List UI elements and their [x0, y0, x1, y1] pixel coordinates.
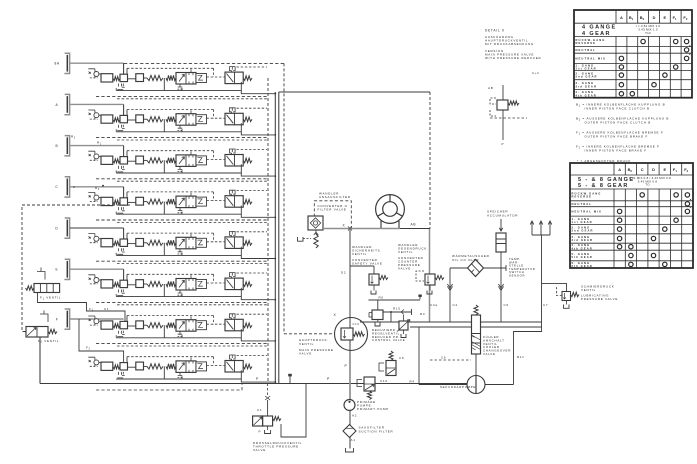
pressure modulating valve row A — [88, 110, 163, 131]
shift valve row A — [166, 110, 207, 130]
pressure modulating valve row F2 — [88, 357, 163, 378]
converter legs — [381, 221, 399, 229]
svg-text:ANSAUGFILTER: ANSAUGFILTER — [319, 195, 351, 199]
shift valve row B — [166, 152, 207, 172]
svg-text:NEUTRAL: NEUTRAL — [576, 48, 597, 52]
svg-text:VALVE: VALVE — [253, 448, 266, 452]
junction dot row F drain/bus — [274, 340, 276, 342]
svg-text:R10: R10 — [393, 307, 401, 311]
svg-text:1st GEAR: 1st GEAR — [576, 67, 597, 71]
svg-text:3rd GEAR: 3rd GEAR — [572, 238, 594, 242]
svg-text:VENTIL: VENTIL — [398, 250, 413, 254]
svg-text:4th GEAR: 4th GEAR — [572, 246, 593, 250]
secondary pump — [467, 376, 485, 394]
drain wires row E — [116, 284, 275, 300]
junction dot row 8A drain/bus — [274, 93, 276, 95]
pilot wire modulator to pilot rail row E — [126, 274, 128, 280]
wire: row 8A supply to converter (node AB) — [279, 91, 430, 93]
svg-text:VENTIL: VENTIL — [299, 342, 314, 346]
shift valve row C — [166, 193, 207, 213]
svg-text:3rd GEAR: 3rd GEAR — [576, 84, 598, 88]
svg-text:D2: D2 — [341, 271, 346, 275]
solenoid pilot valve row 8A — [225, 67, 252, 84]
pilot drain dashed drop row A — [115, 129, 117, 132]
plugged port at R0 line end — [418, 295, 421, 297]
svg-text:D: D — [653, 15, 656, 20]
solenoid pilot valve row D — [225, 231, 252, 248]
svg-text:E: E — [663, 167, 666, 172]
clutch D — [64, 218, 69, 238]
dashed enclosure row F — [96, 343, 268, 345]
converter counter pressure valve — [425, 274, 444, 285]
wire: clutch D feed — [70, 227, 124, 229]
dashed enclosure row D — [96, 260, 268, 262]
svg-text:PRIMARY PUMP: PRIMARY PUMP — [357, 407, 389, 411]
svg-text:C9: C9 — [399, 356, 404, 360]
gear table 4 GANGE / 4 GEAR — [574, 10, 692, 98]
svg-text:C1: C1 — [257, 408, 262, 412]
pilot wire modulator to pilot rail row C — [126, 192, 128, 198]
pilot drain dashed drop row C — [115, 212, 117, 215]
svg-text:VENTIL: VENTIL — [352, 252, 367, 256]
svg-text:R11: R11 — [517, 355, 525, 359]
torque converter — [376, 195, 405, 224]
dashed enclosure row F2 — [96, 384, 242, 390]
svg-text:F: F — [56, 317, 59, 321]
solenoid pilot valve row B — [225, 149, 252, 166]
svg-text:AB: AB — [411, 223, 417, 227]
svg-text:A: A — [56, 103, 59, 107]
wire: converter line — [323, 228, 400, 230]
svg-text:NEUTRAL MIX: NEUTRAL MIX — [572, 210, 602, 214]
svg-text:C6: C6 — [504, 303, 509, 307]
svg-text:REVERSE: REVERSE — [572, 195, 593, 199]
svg-text:D: D — [55, 226, 58, 230]
svg-text:OUTER PISTON FACE BRAKE F: OUTER PISTON FACE BRAKE F — [585, 135, 649, 139]
drain wires row F — [116, 325, 275, 341]
svg-text:NEUTRAL MIX: NEUTRAL MIX — [576, 57, 606, 61]
solenoid vent dashed wire row 8A — [237, 66, 268, 68]
drain wires row C — [116, 202, 275, 218]
dashed enclosure row E — [96, 301, 268, 303]
svg-text:4 GEAR: 4 GEAR — [582, 31, 611, 37]
valve C10 — [364, 377, 375, 391]
svg-text:A: A — [620, 15, 623, 20]
wire: clutch B feed — [70, 145, 124, 147]
shift valve row F — [166, 316, 207, 336]
drain wires row 8A — [116, 78, 275, 94]
valve C9 — [389, 351, 393, 361]
wire: return bus 1 — [274, 92, 276, 384]
svg-text:4th GEAR: 4th GEAR — [576, 93, 597, 97]
wire: clutch F feed — [70, 318, 124, 320]
wire: dashed drop to throttle valve — [267, 384, 269, 397]
svg-text:C: C — [641, 167, 644, 172]
svg-text:C1: C1 — [104, 307, 109, 311]
detail Z pressure reducer — [502, 85, 504, 100]
wire: main pressure bus P — [40, 383, 467, 385]
shift valve row E — [166, 275, 207, 295]
svg-text:INNER PISTON FACE BRAKE F: INNER PISTON FACE BRAKE F — [585, 149, 647, 153]
svg-text:A: A — [618, 167, 621, 172]
svg-text:T12: T12 — [645, 31, 651, 35]
clutch E — [64, 259, 69, 279]
svg-text:ACCUMULATOR: ACCUMULATOR — [487, 213, 518, 217]
wire: dashed pilot bus right of rows — [267, 78, 269, 384]
primary pump — [344, 400, 355, 411]
svg-text:CONTROL VALVE: CONTROL VALVE — [372, 338, 405, 342]
junction dot row D drain/bus — [274, 258, 276, 260]
throttle pressure valve C1 — [263, 416, 273, 426]
svg-text:R0: R0 — [379, 296, 384, 300]
solenoid pilot valve row F — [225, 314, 252, 331]
svg-text:C4: C4 — [453, 303, 458, 307]
valve F2 — [26, 327, 48, 338]
wire: clutch E feed — [70, 268, 124, 270]
wire cooler line — [450, 265, 506, 271]
svg-text:C6: C6 — [441, 356, 446, 360]
junction dot row F2 drain/bus — [274, 381, 276, 383]
pilot wire modulator to pilot rail row 8A — [126, 68, 128, 74]
solenoid vent dashed wire row E — [237, 272, 268, 274]
shift valve row D — [166, 234, 207, 254]
pilot drain dashed drop row 8A — [115, 88, 117, 91]
dashed enclosure row 8A — [124, 62, 284, 64]
pressure control solenoid — [403, 315, 405, 321]
wire: clutch F to row F2 feed — [79, 319, 124, 363]
solenoid vent dashed wire row A — [237, 107, 268, 109]
svg-text:A2: A2 — [352, 414, 357, 418]
svg-text:C+2: C+2 — [532, 71, 539, 75]
reduced pressure control valve — [372, 310, 383, 320]
pressure modulating valve row B — [88, 151, 163, 172]
pressure modulating valve row 8A — [88, 69, 163, 90]
wire R3 line — [360, 321, 542, 323]
svg-text:5 - & 8 GEAR: 5 - & 8 GEAR — [578, 183, 629, 189]
wire: dashed drop to counter-pressure valve — [429, 92, 431, 229]
svg-text:5th GEAR: 5th GEAR — [572, 255, 593, 259]
svg-text:C: C — [55, 185, 58, 189]
solenoid pilot valve row E — [225, 273, 252, 290]
wire: detail Z outlet P — [502, 110, 504, 140]
junction dot row B drain/bus — [274, 175, 276, 177]
wire R0 line — [369, 300, 421, 310]
svg-text:VALVE: VALVE — [398, 267, 411, 271]
svg-text:INNER PISTON FACE CLUTCH B: INNER PISTON FACE CLUTCH B — [585, 107, 650, 111]
svg-text:P: P — [345, 364, 348, 368]
svg-text:MIT DRUCKABSENKUNG: MIT DRUCKABSENKUNG — [485, 42, 534, 46]
svg-text:D: D — [652, 167, 655, 172]
svg-text:2nd GEAR: 2nd GEAR — [572, 229, 594, 233]
svg-text:C10: C10 — [353, 322, 360, 326]
clutch 8A — [64, 53, 69, 73]
wire: clutch A feed — [70, 103, 124, 105]
wire: clutch C feed — [70, 186, 124, 188]
dashed vent detail Z — [490, 117, 527, 119]
solenoid pilot valve row F2 — [225, 355, 252, 372]
pressure modulating valve row E — [88, 275, 163, 296]
converter filter valve — [314, 201, 351, 229]
svg-text:VENTIL: VENTIL — [581, 288, 596, 292]
converter safety valve — [350, 266, 374, 274]
svg-text:REVERSE: REVERSE — [576, 41, 597, 45]
plugged port on bus — [288, 374, 292, 377]
wire: dashed pilot line left column — [22, 205, 130, 332]
wire: return bus 2 — [278, 92, 280, 384]
svg-text:OUTER PISTON FACE CLUTCH B: OUTER PISTON FACE CLUTCH B — [585, 121, 651, 125]
pilot drain dashed drop row F — [115, 335, 117, 338]
shift valve row F2 — [166, 358, 207, 378]
svg-text:4 GANGE: 4 GANGE — [582, 25, 617, 31]
svg-text:AB: AB — [488, 86, 494, 90]
pilot drain dashed drop row E — [115, 294, 117, 297]
svg-text:C4a: C4a — [430, 303, 438, 307]
clutch A — [64, 94, 69, 114]
dashed enclosure row C — [96, 219, 268, 221]
pressure modulating valve row C — [88, 192, 163, 213]
svg-text:VALVE: VALVE — [483, 352, 496, 356]
drain wires row A — [116, 119, 275, 135]
pilot wire modulator to pilot rail row F2 — [126, 357, 128, 363]
wire: F2 valve to bus — [39, 337, 41, 384]
lubricating pressure valve — [562, 292, 571, 301]
clutch B — [64, 136, 69, 156]
svg-text:B: B — [56, 144, 59, 148]
wire: lube header to lube valve — [542, 283, 567, 291]
svg-text:C7: C7 — [543, 303, 548, 307]
drain wires row D — [116, 243, 275, 259]
spring + tank under filter valve — [314, 234, 318, 248]
svg-text:VALVE: VALVE — [299, 352, 312, 356]
svg-text:FILTER VALVE: FILTER VALVE — [318, 207, 347, 211]
dashed pilot to main valve — [284, 333, 335, 335]
dashed pilot C6 — [430, 359, 471, 361]
dashed enclosure row A — [96, 137, 268, 139]
solenoid vent dashed wire row C — [237, 190, 268, 192]
solenoid vent dashed wire row D — [237, 231, 268, 233]
svg-text:P: P — [256, 377, 259, 381]
solenoid vent dashed wire row F2 — [237, 354, 268, 356]
svg-text:P: P — [259, 430, 262, 434]
check valve branch C6 — [500, 268, 502, 322]
svg-text:R4: R4 — [410, 380, 415, 384]
svg-text:2nd GEAR: 2nd GEAR — [576, 75, 598, 79]
wire: clutch 8A feed — [70, 62, 124, 64]
wire throttle valve loop — [281, 384, 306, 438]
solenoid pilot valve row A — [225, 108, 252, 125]
wire changeover to pump — [475, 354, 477, 376]
wire accumulator down — [500, 252, 502, 268]
orifice above throttle valve — [265, 396, 270, 400]
drain wires row B — [116, 160, 275, 176]
svg-text:R3: R3 — [420, 312, 425, 316]
svg-text:C10: C10 — [380, 379, 388, 383]
solenoid vent dashed wire row F — [237, 313, 268, 315]
svg-text:SENSOR: SENSOR — [509, 274, 525, 278]
drain wires row F2 — [116, 366, 275, 382]
junction dot row C drain/bus — [274, 216, 276, 218]
svg-text:E: E — [664, 15, 667, 20]
svg-text:C: C — [73, 185, 76, 189]
svg-text:SAFETY VALVE: SAFETY VALVE — [352, 262, 383, 266]
wire R10 line — [383, 309, 412, 315]
pressure modulating valve row D — [88, 234, 163, 255]
junction dot row A drain/bus — [274, 134, 276, 136]
suction filter — [343, 425, 356, 438]
svg-text:DETAIL X: DETAIL X — [485, 29, 505, 33]
valve F1 — [26, 286, 35, 290]
check valve branch C4 — [449, 268, 451, 322]
solenoid vent dashed wire row B — [237, 148, 268, 150]
svg-text:E: E — [56, 268, 59, 272]
svg-text:SUCTION FILTER: SUCTION FILTER — [359, 430, 394, 434]
svg-text:A1: A1 — [351, 438, 356, 442]
tank suction — [346, 448, 354, 452]
solenoid pilot valve row C — [225, 190, 252, 207]
main pressure line (gray vertical) — [349, 229, 351, 449]
pilot drain dashed drop row D — [115, 253, 117, 256]
pilot wire modulator to pilot rail row F — [126, 316, 128, 322]
wire: F1 output (nodes F1, C1) — [38, 293, 126, 322]
lubrication arrows — [530, 221, 552, 235]
svg-text:SEKUNDÄRPUMPE: SEKUNDÄRPUMPE — [440, 385, 476, 389]
svg-text:6th GEAR: 6th GEAR — [572, 264, 593, 268]
svg-text:X: X — [343, 224, 346, 228]
svg-text:TO: TO — [645, 183, 650, 187]
shift valve row 8A — [166, 69, 207, 89]
junction dot row E drain/bus — [274, 299, 276, 301]
pressure modulating valve row F — [88, 316, 163, 337]
clutch C — [64, 177, 69, 197]
pilot wire modulator to pilot rail row A — [126, 110, 128, 116]
svg-text:WITH PRESSURE REDUCER: WITH PRESSURE REDUCER — [485, 56, 542, 60]
svg-text:8A: 8A — [54, 62, 60, 66]
svg-text:P: P — [502, 142, 505, 146]
pilot drain dashed drop row B — [115, 170, 117, 173]
clutch F — [64, 309, 69, 329]
svg-text:NEUTRAL: NEUTRAL — [572, 202, 593, 206]
pilot wire modulator to pilot rail row B — [126, 151, 128, 157]
wire: converter return line (gray) node C4a — [429, 229, 431, 323]
svg-text:PRESSURE VALVE: PRESSURE VALVE — [581, 297, 618, 301]
dashed enclosure row B — [96, 178, 268, 180]
main pressure valve (X) — [335, 318, 368, 351]
wires secondary pump loop — [419, 327, 514, 385]
cooler changeover valve — [474, 305, 478, 315]
svg-text:1st GEAR: 1st GEAR — [572, 220, 593, 224]
wire lube header — [514, 235, 542, 385]
wire collector line — [410, 326, 542, 328]
gear table 5-8 GANGE / 5-8 GEAR — [570, 163, 693, 268]
wire: outer dashed boundary — [283, 63, 285, 333]
svg-text:X: X — [334, 313, 337, 317]
pilot wire modulator to pilot rail row D — [126, 233, 128, 239]
svg-text:P: P — [327, 377, 330, 381]
